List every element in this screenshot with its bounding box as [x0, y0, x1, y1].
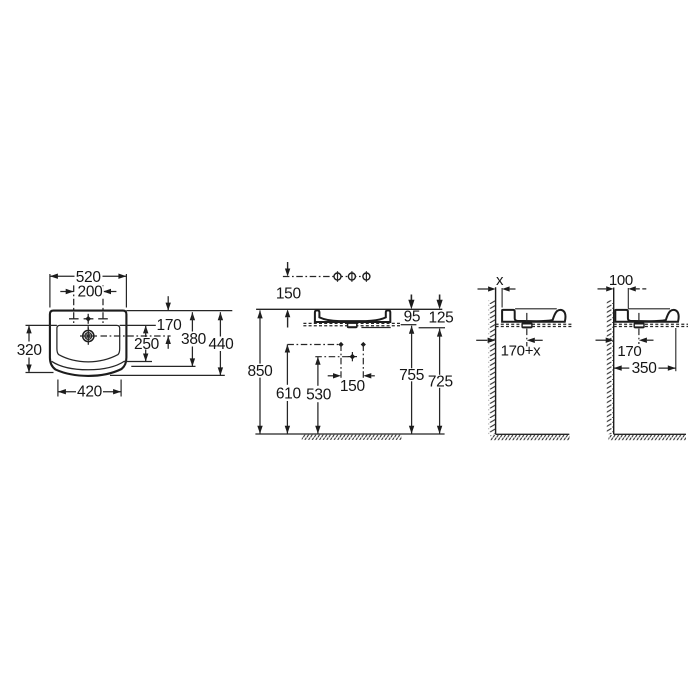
dimension 170+x — [476, 338, 543, 360]
basin back rim edge line view1 — [515, 308, 557, 310]
level line 95 — [401, 309, 421, 326]
dimension 420 — [58, 380, 121, 401]
dimension 440 — [110, 312, 234, 375]
faucet hole left cross — [69, 285, 79, 323]
svg-text:380: 380 — [181, 331, 207, 348]
svg-text:250: 250 — [134, 336, 160, 353]
dimension 530 — [306, 357, 349, 434]
mounting hole left — [338, 342, 343, 378]
svg-text:x: x — [496, 272, 504, 289]
floor hatching middle — [302, 435, 402, 440]
dimension 520 — [50, 269, 127, 307]
drain fitting view1 — [521, 313, 532, 347]
faucet hole circle 2 — [348, 271, 355, 282]
svg-text:125: 125 — [429, 310, 454, 327]
svg-text:850: 850 — [248, 363, 274, 380]
svg-text:440: 440 — [209, 336, 235, 353]
faucet hole center mark — [84, 314, 94, 329]
level line 125 — [361, 310, 453, 328]
svg-text:530: 530 — [306, 387, 332, 404]
faucet hole circle 1 — [334, 271, 341, 282]
wall hatching view2 — [607, 300, 614, 434]
faucet axis extension view2 — [627, 288, 629, 309]
svg-text:170: 170 — [157, 317, 183, 334]
rim reference line — [256, 308, 442, 310]
svg-text:200: 200 — [78, 284, 104, 301]
wall hatching view1 — [489, 300, 496, 434]
dimension 380 — [131, 312, 206, 366]
basin profile view2 — [615, 310, 678, 322]
thick arrow at rim left — [408, 295, 414, 310]
wall face line view1 — [495, 287, 497, 434]
dimension 250 — [120, 325, 160, 361]
basin front extension line view2 — [675, 328, 677, 371]
svg-text:170: 170 — [617, 343, 641, 360]
faucet hole circle 3 — [363, 271, 370, 282]
svg-text:320: 320 — [17, 342, 43, 359]
svg-text:95: 95 — [404, 309, 421, 326]
svg-text:150: 150 — [276, 285, 302, 302]
svg-text:755: 755 — [399, 367, 424, 384]
drain strainer cross — [86, 334, 90, 338]
basin front view outer outline — [50, 311, 127, 376]
dimension 320 — [16, 325, 57, 372]
floor hatching view2 — [609, 435, 687, 440]
floor hatching view1 — [491, 435, 571, 440]
basin rear extension line view1 — [501, 288, 503, 308]
drain axis dash-dot to right — [101, 335, 171, 337]
mounting hole middle — [348, 352, 357, 361]
dimension 350 — [614, 360, 676, 377]
countertop dashed slab view2 — [614, 324, 688, 326]
dimension 150 top — [275, 262, 301, 328]
svg-text:420: 420 — [77, 384, 103, 401]
thick arrow at rim right — [437, 295, 443, 310]
dimension 610 — [275, 345, 339, 434]
wall face line view2 — [613, 288, 615, 435]
drain fitting view2 — [634, 313, 645, 344]
svg-text:610: 610 — [276, 385, 302, 402]
dimension 170 view2 — [596, 338, 654, 361]
dimension 755 — [399, 326, 424, 434]
basin profile view1 — [502, 310, 565, 322]
svg-text:170+x: 170+x — [501, 343, 542, 360]
drain inner circle — [85, 333, 92, 340]
svg-text:725: 725 — [428, 374, 453, 391]
svg-text:350: 350 — [632, 360, 658, 377]
dimension 850 — [247, 310, 273, 433]
basin cross-section — [315, 310, 390, 322]
drain outer circle — [83, 330, 94, 341]
dimension 150 holes — [328, 373, 375, 395]
faucet hole right cross — [98, 285, 108, 323]
basin back rim edge line view2 — [628, 308, 670, 310]
mounting hole right — [361, 342, 366, 378]
drain crosshair — [80, 328, 97, 345]
drain fitting middle — [347, 321, 358, 328]
svg-text:100: 100 — [609, 272, 633, 289]
svg-text:150: 150 — [340, 378, 366, 395]
floor line view2 — [614, 433, 686, 435]
basin front view inner rim and bowl — [57, 325, 120, 362]
countertop dashed slab middle — [303, 323, 401, 325]
floor line view1 — [496, 433, 570, 435]
dimension 200 — [60, 284, 116, 301]
floor line middle — [255, 433, 444, 435]
faucet axis line top view — [283, 276, 372, 278]
basin front apron curve — [52, 361, 125, 370]
dimension 725 — [428, 329, 453, 434]
dimension 170 — [126, 296, 232, 349]
countertop dashed slab view1 — [496, 324, 572, 326]
dimension 100 — [598, 272, 647, 292]
dimension x — [478, 272, 516, 292]
